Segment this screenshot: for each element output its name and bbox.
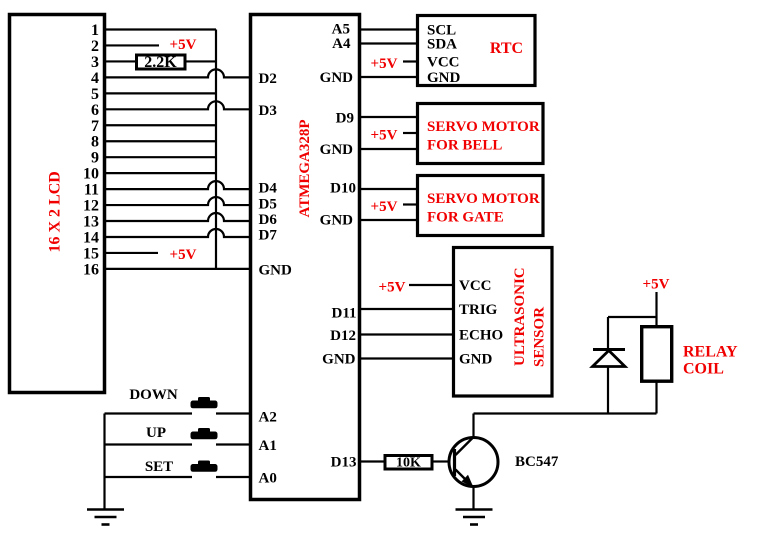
svg-text:RTC: RTC bbox=[490, 40, 523, 57]
wire: GND to RTC GND bbox=[361, 76, 416, 78]
wire: LCD pin14 to ATMEGA D7 (hop over bus) bbox=[106, 229, 249, 237]
svg-text:A4: A4 bbox=[332, 36, 351, 52]
svg-text:VCC: VCC bbox=[459, 278, 492, 294]
svg-text:10: 10 bbox=[83, 166, 99, 183]
svg-text:16: 16 bbox=[83, 261, 99, 278]
wire: branch down to diode bbox=[607, 317, 609, 349]
push button SW2 UP bbox=[191, 428, 218, 439]
svg-text:15: 15 bbox=[83, 245, 99, 262]
wire: relay coil bottom to collector node bbox=[655, 382, 657, 414]
push button SW1 DOWN bbox=[191, 397, 218, 408]
svg-text:12: 12 bbox=[83, 198, 99, 215]
svg-text:D7: D7 bbox=[259, 228, 278, 244]
ultrasonic sensor box bbox=[454, 248, 553, 397]
svg-text:A0: A0 bbox=[259, 471, 277, 487]
wire: D9 to servo bell bbox=[361, 116, 416, 118]
wire: D11 to ultrasonic TRIG bbox=[361, 308, 452, 310]
svg-text:SDA: SDA bbox=[427, 37, 457, 53]
wire: SET switch to A0 bbox=[216, 476, 249, 478]
resistor R2 10K box bbox=[385, 456, 432, 470]
wire: collector node horizontal bbox=[474, 412, 657, 414]
svg-text:SERVO MOTOR: SERVO MOTOR bbox=[427, 119, 540, 135]
transistor Q1 BC547 NPN bbox=[449, 438, 498, 487]
svg-text:GND: GND bbox=[320, 213, 354, 229]
wire: +5V down to relay coil top bbox=[655, 292, 657, 326]
svg-text:D2: D2 bbox=[259, 71, 277, 87]
wire: LCD pin8 to bus bbox=[106, 140, 216, 142]
wire: button bus to SET switch bbox=[105, 476, 193, 478]
svg-text:D11: D11 bbox=[331, 306, 356, 322]
svg-text:SET: SET bbox=[145, 459, 173, 475]
wire: D13 to resistor R2 bbox=[361, 460, 384, 462]
svg-text:COIL: COIL bbox=[683, 361, 724, 378]
svg-text:VCC: VCC bbox=[427, 55, 460, 71]
svg-text:1: 1 bbox=[91, 22, 99, 39]
svg-text:D5: D5 bbox=[259, 197, 277, 213]
servo motor (gate) box bbox=[418, 176, 544, 236]
svg-text:GND: GND bbox=[427, 70, 461, 86]
svg-text:8: 8 bbox=[91, 134, 99, 151]
wire: LCD pin2 to +5V bbox=[106, 44, 159, 46]
svg-text:16 X 2 LCD: 16 X 2 LCD bbox=[47, 171, 64, 252]
svg-text:A1: A1 bbox=[259, 438, 277, 454]
wire: LCD pin6 to ATMEGA D3 (hop over bus) bbox=[106, 101, 249, 109]
svg-text:TRIG: TRIG bbox=[459, 302, 498, 318]
wire: LCD pin7 to bus bbox=[106, 124, 216, 126]
wire: A4 to RTC SDA bbox=[361, 42, 416, 44]
wire: LCD pin5 to bus bbox=[106, 92, 216, 94]
svg-text:3: 3 bbox=[91, 54, 99, 71]
svg-text:6: 6 bbox=[91, 102, 99, 119]
svg-text:ULTRASONIC: ULTRASONIC bbox=[512, 267, 528, 366]
diode D1 (flyback) cathode bar bbox=[593, 348, 625, 351]
wire: button bus to UP switch bbox=[105, 443, 193, 445]
svg-text:+5V: +5V bbox=[371, 56, 398, 72]
svg-text:+5V: +5V bbox=[379, 280, 406, 296]
wire: +5V to ultrasonic VCC bbox=[409, 284, 452, 286]
wire: GND to servo gate bbox=[361, 219, 416, 221]
svg-text:11: 11 bbox=[84, 182, 99, 199]
wire: LCD pin3 to resistor R1 bbox=[106, 60, 135, 62]
svg-text:14: 14 bbox=[83, 230, 99, 247]
wire: LCD pin4 to ATMEGA D2 (hop over bus) bbox=[106, 69, 249, 77]
svg-text:D6: D6 bbox=[259, 212, 278, 228]
svg-text:D9: D9 bbox=[336, 111, 354, 127]
wire: R1 to bus bbox=[187, 60, 217, 62]
Q1 emitter arrow head bbox=[462, 475, 474, 488]
ground (below Q1) bbox=[456, 510, 493, 525]
svg-text:+5V: +5V bbox=[371, 127, 398, 143]
wire: DOWN switch to A2 bbox=[216, 412, 249, 414]
wire: A5 to RTC SCL bbox=[361, 28, 416, 30]
svg-text:ECHO: ECHO bbox=[459, 328, 503, 344]
svg-text:A2: A2 bbox=[259, 410, 277, 426]
svg-text:SERVO MOTOR: SERVO MOTOR bbox=[427, 191, 540, 207]
servo motor (bell) box bbox=[418, 104, 544, 164]
resistor R1 2.2K box bbox=[137, 55, 186, 69]
wire: +5V to RTC VCC bbox=[403, 60, 416, 62]
svg-text:5: 5 bbox=[91, 86, 99, 103]
svg-text:GND: GND bbox=[322, 352, 356, 368]
wire: Q1 collector up bbox=[472, 414, 474, 438]
svg-text:UP: UP bbox=[146, 425, 166, 441]
LCD U2 16x2 display box bbox=[10, 15, 105, 393]
wire: LCD pin10 to bus bbox=[106, 172, 216, 174]
svg-text:13: 13 bbox=[83, 214, 99, 231]
wire: button bus to DOWN switch bbox=[105, 412, 193, 414]
svg-text:7: 7 bbox=[91, 118, 99, 135]
microcontroller U1 ATMEGA328P box bbox=[251, 15, 360, 500]
wire: GND to servo bell bbox=[361, 148, 416, 150]
wire: UP switch to A1 bbox=[216, 443, 249, 445]
svg-text:+5V: +5V bbox=[371, 199, 398, 215]
wire: LCD pin16 to ATMEGA GND bbox=[106, 268, 249, 270]
relay coil L1 box bbox=[642, 327, 672, 382]
svg-text:4: 4 bbox=[91, 70, 99, 87]
svg-text:10K: 10K bbox=[396, 456, 421, 471]
svg-text:FOR GATE: FOR GATE bbox=[427, 210, 504, 226]
svg-text:2.2K: 2.2K bbox=[144, 54, 177, 71]
diode D1 triangle (anode, pointing up) bbox=[593, 351, 626, 367]
svg-text:GND: GND bbox=[259, 263, 293, 279]
svg-text:BC547: BC547 bbox=[515, 454, 559, 470]
wire: R2 to Q1 base bbox=[434, 460, 449, 462]
wire: +5V branch to diode cathode bbox=[608, 316, 657, 318]
wire: +5V to servo bell bbox=[403, 132, 416, 134]
svg-text:SENSOR: SENSOR bbox=[532, 307, 548, 367]
ground (button common) bbox=[87, 510, 124, 525]
wire: Q1 emitter down to ground bbox=[472, 487, 474, 509]
svg-text:GND: GND bbox=[459, 352, 493, 368]
wire: GND to ultrasonic GND bbox=[361, 357, 452, 359]
RTC module box bbox=[418, 16, 536, 86]
svg-text:D3: D3 bbox=[259, 103, 277, 119]
wire: +5V to servo gate bbox=[403, 203, 416, 205]
wire: LCD pin11 to ATMEGA D4 (hop over bus) bbox=[106, 181, 249, 189]
wire: LCD pin9 to bus bbox=[106, 156, 216, 158]
svg-text:2: 2 bbox=[91, 38, 99, 55]
wire: button common bus vertical bbox=[103, 414, 105, 510]
wire: D12 to ultrasonic ECHO bbox=[361, 333, 452, 335]
wire: diode anode to collector node bbox=[607, 367, 609, 414]
push button SW3 SET bbox=[191, 461, 218, 472]
svg-text:+5V: +5V bbox=[170, 247, 197, 263]
wire: LCD pin1 to bus bbox=[106, 28, 216, 30]
svg-text:ATMEGA328P: ATMEGA328P bbox=[297, 119, 313, 217]
wire: D10 to servo gate bbox=[361, 188, 416, 190]
svg-text:DOWN: DOWN bbox=[129, 387, 178, 403]
svg-text:D4: D4 bbox=[259, 181, 278, 197]
wire: LCD bus vertical (pins 1,3,5,7-10,16 common) bbox=[215, 30, 217, 270]
svg-text:GND: GND bbox=[320, 70, 354, 86]
svg-text:RELAY: RELAY bbox=[683, 344, 738, 361]
svg-text:+5V: +5V bbox=[170, 37, 197, 53]
wire: LCD pin12 to ATMEGA D5 (hop over bus) bbox=[106, 197, 249, 205]
svg-text:D12: D12 bbox=[330, 328, 356, 344]
svg-text:+5V: +5V bbox=[643, 277, 670, 293]
wire: LCD pin13 to ATMEGA D6 (hop over bus) bbox=[106, 213, 249, 221]
svg-text:D13: D13 bbox=[331, 455, 357, 471]
svg-text:9: 9 bbox=[91, 150, 99, 167]
svg-text:GND: GND bbox=[320, 142, 354, 158]
svg-text:FOR BELL: FOR BELL bbox=[427, 138, 502, 154]
wire: LCD pin15 to +5V bbox=[106, 252, 158, 254]
svg-text:D10: D10 bbox=[330, 181, 356, 197]
